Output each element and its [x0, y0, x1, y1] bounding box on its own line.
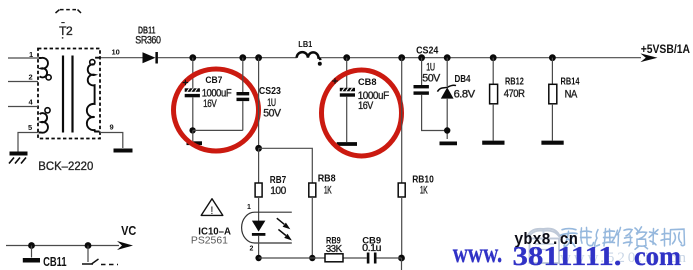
ground DB4: [440, 141, 458, 145]
wire pin9: [100, 123, 123, 149]
label 1K: [420, 184, 428, 196]
svg-text:CB8: CB8: [358, 77, 377, 88]
polarity plus CB7: [183, 80, 189, 86]
label VC: [121, 223, 137, 238]
node RB14 rail: [549, 54, 556, 61]
label RB12: [505, 77, 524, 88]
svg-text:DB4: DB4: [455, 74, 471, 85]
label RB8: [318, 173, 336, 184]
wire junction to RB7: [258, 148, 260, 183]
label 470R: [504, 88, 525, 100]
capacitor CB7: [185, 58, 200, 131]
zener DB4: [437, 58, 456, 139]
capacitor CS23: [237, 58, 250, 131]
wire VC line: [6, 245, 119, 247]
opto light arrows: [277, 218, 292, 240]
wire RB10 down: [401, 197, 403, 258]
svg-text:6.8V: 6.8V: [454, 88, 476, 100]
label BCK-2220: [38, 161, 93, 173]
resistor RB12: [490, 58, 498, 141]
watermark ybx8.cn: [514, 231, 578, 250]
arrow VC: [117, 241, 133, 250]
svg-text:+5VSB/1A: +5VSB/1A: [641, 44, 690, 56]
capacitor CB9: [367, 253, 377, 264]
node RB8 bottom: [309, 255, 315, 261]
warning triangle: [201, 199, 223, 217]
label opto pin2: [250, 246, 254, 253]
node CS23 rail: [239, 54, 246, 61]
watermark chinese text: [561, 227, 685, 249]
svg-text:CB7: CB7: [205, 75, 222, 86]
label RB7: [270, 175, 287, 186]
ground CB8: [337, 142, 357, 146]
arrow +5VSB output: [640, 53, 657, 62]
resistor RB7: [255, 183, 262, 197]
wire feed drop: [258, 58, 260, 149]
svg-text:50V: 50V: [422, 73, 441, 85]
svg-text:0.1u: 0.1u: [362, 243, 381, 254]
label DB11: [138, 26, 156, 37]
svg-text:1K: 1K: [324, 185, 332, 197]
svg-text:CS24: CS24: [416, 46, 439, 57]
node switch: [85, 242, 92, 249]
label CB9: [362, 236, 381, 247]
label 6.8V: [454, 88, 476, 100]
label SR360: [135, 35, 161, 47]
svg-text:CS23: CS23: [259, 86, 281, 97]
svg-text:SR360: SR360: [135, 35, 161, 47]
svg-text:16V: 16V: [203, 98, 217, 110]
svg-text:!: !: [210, 205, 213, 217]
svg-text:VC: VC: [121, 223, 137, 238]
ground CB7: [187, 141, 203, 145]
label 1U 50V: [422, 62, 441, 85]
wire junction to RB8: [259, 148, 313, 183]
resistor RB14: [549, 58, 557, 141]
svg-text:1: 1: [29, 50, 33, 59]
label 1000uF 16V: [358, 90, 390, 112]
wire RB7 to opto: [258, 197, 260, 221]
watermark ghost url: [560, 250, 687, 266]
svg-text:LB1: LB1: [298, 39, 312, 49]
resistor RB9: [325, 254, 343, 262]
svg-text:16V: 16V: [358, 100, 374, 112]
ground RB12: [482, 141, 504, 145]
svg-text:www.: www.: [453, 238, 503, 268]
wire pin1: [8, 50, 38, 59]
svg-text:33K: 33K: [326, 244, 343, 255]
svg-text:9: 9: [110, 123, 114, 132]
svg-text:NA: NA: [565, 88, 578, 100]
svg-text:com: com: [634, 241, 681, 270]
label IC10-A: [198, 226, 231, 237]
svg-text:RB8: RB8: [318, 173, 336, 184]
svg-text:2: 2: [29, 73, 33, 82]
svg-text:BCK–2220: BCK–2220: [38, 161, 93, 173]
opto-coupler IC10-A body: [242, 212, 292, 243]
wire main +5V rail: [100, 57, 641, 59]
label 1U 50V: [263, 97, 281, 120]
wire RB10 drop: [401, 58, 403, 183]
wire RB8 down: [311, 197, 313, 258]
node feed rail: [255, 54, 262, 61]
svg-text:5: 5: [28, 123, 32, 132]
label CB8: [358, 77, 377, 88]
wire bottom rail: [259, 258, 402, 270]
capacitor CB11: [23, 246, 40, 261]
node DB4 rail: [444, 54, 451, 61]
label NA: [565, 88, 578, 100]
node RB10 bottom: [398, 255, 405, 262]
ground RB14: [541, 141, 563, 145]
label CS24: [416, 46, 439, 57]
label 1000uF 16V: [202, 88, 232, 110]
label 0.1u: [362, 243, 381, 254]
label CB11: [43, 254, 67, 269]
capacitor CB8: [340, 58, 355, 142]
svg-text:1: 1: [247, 204, 251, 211]
dashed fragment top-left (cut-off component above): [56, 10, 82, 13]
opto LED: [252, 221, 266, 258]
node opto pin2 bottom: [255, 255, 261, 261]
svg-text:PS2561: PS2561: [191, 234, 228, 246]
label +5VSB/1A: [641, 44, 690, 56]
node RB12 rail: [490, 54, 497, 61]
label CB7: [205, 75, 222, 86]
svg-text:1K: 1K: [420, 184, 428, 196]
label RB9: [326, 236, 341, 247]
node CB7 rail: [189, 54, 196, 61]
node RB10 rail: [398, 54, 405, 61]
node feed junction: [255, 145, 262, 152]
resistor RB10: [398, 183, 405, 197]
resistor RB8: [309, 183, 316, 197]
diode DB11: [143, 52, 158, 64]
svg-text:RB14: RB14: [561, 77, 580, 88]
ground earth pin5: [9, 154, 28, 164]
capacitor CS24: [414, 58, 448, 131]
svg-text:100: 100: [270, 185, 286, 197]
label pin10: [112, 48, 120, 57]
highlight circle CB8: [322, 70, 402, 156]
wire CB7 to ground: [192, 130, 194, 141]
svg-text:3811111.: 3811111.: [513, 241, 622, 270]
wire pin5: [18, 123, 38, 152]
svg-text:50V: 50V: [263, 108, 281, 120]
ground pin9: [114, 149, 133, 153]
inductor LB1: [297, 52, 322, 66]
wire CB7 to CS23 bottom: [193, 129, 243, 131]
node DB4 CS24 junction: [444, 127, 450, 133]
node CB8 rail: [343, 54, 350, 61]
svg-text:T2: T2: [59, 26, 72, 38]
svg-text:RB12: RB12: [505, 77, 524, 88]
svg-text:CB11: CB11: [43, 254, 67, 269]
transformer T2: [38, 49, 100, 139]
label RB10: [412, 174, 434, 185]
label 100: [270, 185, 286, 197]
svg-text:10: 10: [112, 48, 120, 57]
label opto pin1: [247, 204, 251, 211]
label DB4: [455, 74, 471, 85]
label RB14: [561, 77, 580, 88]
switch contact: [82, 246, 118, 265]
watermark www.3811111.com: [453, 238, 682, 270]
watermark book logo: [527, 229, 561, 263]
svg-text:2: 2: [250, 246, 254, 253]
svg-text:470R: 470R: [504, 88, 525, 100]
label PS2561: [191, 234, 228, 246]
node CS24 rail: [418, 54, 425, 61]
wire pin4: [8, 98, 38, 107]
label CS23: [259, 86, 281, 97]
node CB11: [28, 242, 35, 249]
polarity plus CB8: [332, 78, 338, 84]
label 1K: [324, 185, 332, 197]
wire pin2: [8, 73, 38, 82]
svg-text:4: 4: [29, 98, 34, 107]
highlight circle CB7: [174, 69, 259, 151]
node CB7 bottom: [189, 127, 195, 133]
label LB1: [298, 39, 312, 49]
label 33K: [326, 244, 343, 255]
label T2: [59, 23, 72, 39]
